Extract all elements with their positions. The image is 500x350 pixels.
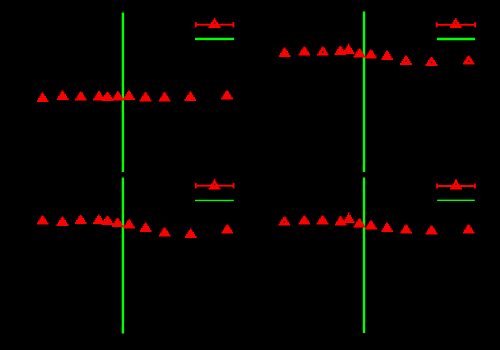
data point 2, top-right panel bbox=[299, 46, 311, 55]
data point 11, bottom-right panel bbox=[463, 225, 475, 234]
data point 1, bottom-right panel bbox=[279, 216, 291, 225]
green vertical fit line, top-right panel bbox=[363, 12, 365, 173]
green vertical fit line, bottom-right panel bbox=[363, 178, 365, 334]
legend green line, top-right panel bbox=[437, 38, 475, 40]
data point 7, top-left panel bbox=[123, 91, 135, 100]
data point 7, bottom-left panel bbox=[123, 219, 135, 228]
data point 6, bottom-left panel bbox=[112, 218, 124, 227]
legend green line, bottom-right panel bbox=[437, 199, 475, 201]
data point 1, top-left panel bbox=[37, 93, 49, 102]
legend triangle marker, bottom-left panel bbox=[209, 180, 221, 189]
data point 10, bottom-left panel bbox=[185, 229, 197, 238]
data point 5, bottom-right panel bbox=[343, 212, 355, 222]
data point 3, top-left panel bbox=[75, 92, 87, 101]
data point 9, bottom-left panel bbox=[159, 227, 171, 236]
data point 6, bottom-right panel bbox=[354, 218, 366, 227]
data point 1, top-right panel bbox=[279, 48, 291, 57]
legend error bar, bottom-left panel bbox=[196, 179, 234, 189]
data point 11, bottom-left panel bbox=[222, 224, 234, 233]
legend green line, bottom-left panel bbox=[195, 199, 234, 201]
data point 6, top-right panel bbox=[354, 48, 366, 57]
legend triangle marker, bottom-right panel bbox=[450, 180, 462, 189]
data point 10, top-right panel bbox=[426, 57, 438, 66]
data point 5, top-right panel bbox=[343, 44, 355, 54]
data point 5, bottom-left panel bbox=[102, 216, 114, 225]
legend error bar, bottom-right panel bbox=[437, 179, 475, 189]
data point 10, bottom-right panel bbox=[426, 226, 438, 235]
green vertical fit line, top-left panel bbox=[122, 13, 124, 173]
data point 3, bottom-left panel bbox=[75, 215, 87, 224]
data point 4, top-right panel bbox=[335, 46, 347, 55]
data point 6, top-left panel bbox=[112, 91, 124, 100]
data point 3, bottom-right panel bbox=[317, 215, 329, 224]
data point 8, top-left panel bbox=[140, 92, 152, 101]
data point 8, bottom-right panel bbox=[381, 223, 393, 232]
data point 4, top-left panel bbox=[93, 91, 105, 100]
data point 7, top-right panel bbox=[365, 49, 377, 58]
data point 4, bottom-left panel bbox=[93, 215, 105, 224]
legend error bar, top-right panel bbox=[437, 18, 475, 28]
data point 8, bottom-left panel bbox=[140, 223, 152, 232]
data point 2, bottom-left panel bbox=[57, 217, 69, 226]
data point 2, top-left panel bbox=[57, 91, 69, 100]
data point 11, top-left panel bbox=[221, 90, 233, 99]
data point 1, bottom-left panel bbox=[37, 216, 49, 225]
legend triangle marker, top-left panel bbox=[209, 19, 221, 28]
data point 11, top-right panel bbox=[463, 56, 475, 65]
data point 3, top-right panel bbox=[317, 46, 329, 55]
data point 4, bottom-right panel bbox=[335, 216, 347, 225]
data point 10, top-left panel bbox=[185, 92, 197, 101]
data point 2, bottom-right panel bbox=[299, 215, 311, 224]
data point 9, top-left panel bbox=[159, 92, 171, 101]
data point 5, top-left panel bbox=[102, 92, 114, 101]
green vertical fit line, bottom-left panel bbox=[122, 178, 124, 334]
legend triangle marker, top-right panel bbox=[450, 19, 462, 28]
data point 8, top-right panel bbox=[381, 51, 393, 60]
data point 9, top-right panel bbox=[400, 56, 412, 65]
data point 7, bottom-right panel bbox=[365, 220, 377, 229]
data point 9, bottom-right panel bbox=[400, 225, 412, 234]
legend green line, top-left panel bbox=[195, 38, 234, 40]
legend error bar, top-left panel bbox=[196, 18, 234, 28]
